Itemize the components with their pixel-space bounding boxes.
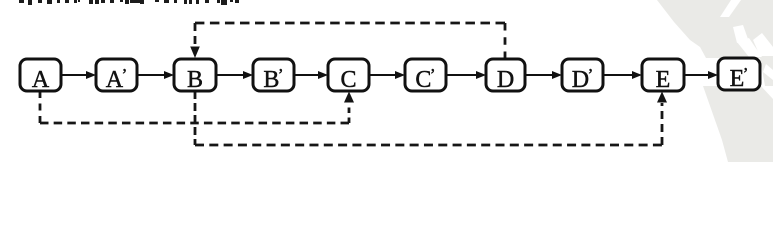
svg-text:B: B [187, 67, 203, 93]
svg-text:E: E [656, 67, 671, 93]
svg-text:C: C [340, 67, 356, 93]
svg-text:A: A [32, 67, 50, 93]
svg-text:D: D [497, 67, 514, 93]
